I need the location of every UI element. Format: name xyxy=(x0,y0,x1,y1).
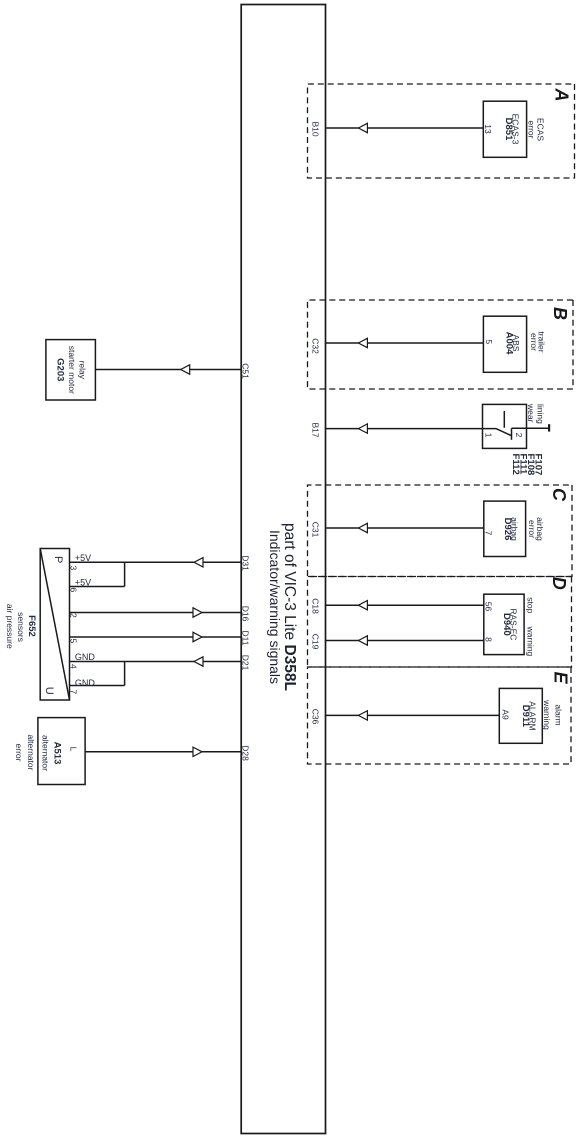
svg-text:D940: D940 xyxy=(501,613,512,636)
svg-text:air pressure: air pressure xyxy=(5,604,15,649)
svg-text:alarm: alarm xyxy=(554,704,564,725)
svg-text:F652: F652 xyxy=(26,615,37,637)
svg-text:8: 8 xyxy=(483,637,493,642)
svg-text:A: A xyxy=(552,88,572,102)
svg-text:7: 7 xyxy=(68,690,78,695)
svg-text:error: error xyxy=(14,744,24,762)
svg-text:warning: warning xyxy=(526,626,536,657)
svg-text:A513: A513 xyxy=(52,742,63,765)
svg-text:+5V: +5V xyxy=(75,553,91,563)
svg-text:B10: B10 xyxy=(310,121,320,136)
svg-text:3: 3 xyxy=(68,566,78,571)
svg-text:L: L xyxy=(69,747,79,752)
svg-text:C51: C51 xyxy=(241,363,251,379)
svg-text:5: 5 xyxy=(484,339,494,344)
svg-text:starter motor: starter motor xyxy=(67,346,77,394)
svg-text:error: error xyxy=(529,333,539,351)
svg-text:G203: G203 xyxy=(55,358,66,381)
svg-text:alternator: alternator xyxy=(40,735,50,771)
svg-text:error: error xyxy=(527,121,537,139)
svg-text:2: 2 xyxy=(68,613,78,618)
svg-text:E: E xyxy=(551,672,571,685)
svg-text:lining: lining xyxy=(536,404,546,424)
svg-text:B: B xyxy=(550,307,570,320)
svg-text:D926: D926 xyxy=(502,518,513,541)
svg-text:56: 56 xyxy=(483,602,493,612)
svg-text:GND: GND xyxy=(75,678,96,688)
svg-text:13: 13 xyxy=(483,124,493,134)
svg-text:stop: stop xyxy=(526,597,536,613)
svg-text:Indicator/warning signals: Indicator/warning signals xyxy=(267,530,283,684)
svg-text:D28: D28 xyxy=(241,745,251,761)
svg-text:warning: warning xyxy=(542,699,552,730)
svg-text:F112: F112 xyxy=(510,454,521,475)
svg-text:B17: B17 xyxy=(310,422,320,437)
svg-text:A9: A9 xyxy=(501,709,511,720)
svg-text:part of VIC-3 Lite D358L: part of VIC-3 Lite D358L xyxy=(281,523,298,691)
svg-text:A004: A004 xyxy=(504,332,515,355)
svg-text:7: 7 xyxy=(483,531,493,536)
svg-text:D31: D31 xyxy=(241,555,251,571)
svg-text:ECAS: ECAS xyxy=(536,118,546,141)
svg-text:U: U xyxy=(43,687,55,695)
svg-text:C32: C32 xyxy=(310,338,320,354)
svg-text:1: 1 xyxy=(483,433,493,438)
svg-text:C18: C18 xyxy=(310,598,320,614)
svg-text:C36: C36 xyxy=(310,709,320,725)
svg-text:D: D xyxy=(549,577,569,590)
svg-text:D911: D911 xyxy=(520,705,531,728)
svg-text:GND: GND xyxy=(75,652,96,662)
svg-text:D21: D21 xyxy=(241,655,251,671)
svg-text:D851: D851 xyxy=(503,118,514,141)
svg-text:D16: D16 xyxy=(241,606,251,622)
svg-text:C31: C31 xyxy=(310,522,320,538)
svg-text:6: 6 xyxy=(68,588,78,593)
svg-text:4: 4 xyxy=(68,664,78,669)
svg-text:D11: D11 xyxy=(241,631,251,646)
svg-text:relay: relay xyxy=(77,361,87,380)
svg-text:2: 2 xyxy=(514,433,524,438)
svg-text:C19: C19 xyxy=(310,634,320,650)
svg-text:5: 5 xyxy=(68,639,78,644)
svg-text:alternator: alternator xyxy=(26,735,36,771)
svg-text:P: P xyxy=(52,556,64,563)
svg-text:sensors: sensors xyxy=(16,612,26,642)
svg-text:C: C xyxy=(549,488,569,502)
svg-text:+5V: +5V xyxy=(75,577,91,587)
svg-text:error: error xyxy=(527,520,537,538)
svg-text:wear: wear xyxy=(526,403,536,423)
